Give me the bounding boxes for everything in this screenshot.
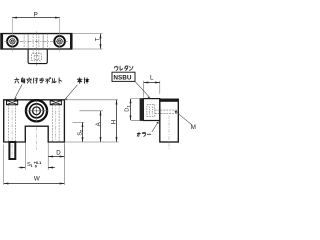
hidden socket in protrusion bbox=[34, 55, 39, 59]
collar leader bbox=[152, 122, 159, 133]
svg-text:2: 2 bbox=[80, 130, 84, 132]
bolt B2 top view head outer ring bbox=[54, 36, 65, 47]
A dimension line bbox=[100, 111, 102, 142]
S1 dimension arrows bbox=[19, 167, 26, 169]
notch center line bbox=[36, 127, 38, 150]
svg-text:D: D bbox=[56, 150, 61, 157]
urethane pad bbox=[140, 99, 143, 121]
top view plate body bbox=[1, 34, 72, 49]
D extension line bbox=[63, 143, 65, 159]
W dimension line bbox=[4, 183, 65, 185]
stopper circle inner bbox=[33, 107, 41, 115]
bolt B1 vertical center line bbox=[12, 18, 14, 52]
collar rect bbox=[143, 99, 159, 121]
D1 extension lines bbox=[131, 99, 140, 121]
hidden bolt shaft lines in plate bbox=[33, 34, 39, 49]
hidden collar lines in plate bbox=[24, 34, 47, 49]
svg-text:NSBU: NSBU bbox=[113, 75, 131, 82]
front view body outline bbox=[4, 100, 65, 142]
svg-text:T: T bbox=[94, 37, 101, 41]
side view center line bbox=[168, 116, 170, 150]
hidden shaft lines side view bbox=[155, 110, 177, 113]
top view right dark end strip bbox=[70, 34, 72, 49]
bolt F2 center line bbox=[55, 103, 57, 142]
bolt B2 socket circle bbox=[58, 40, 60, 42]
bolt F2 head bbox=[50, 100, 61, 104]
H top extension line bbox=[67, 99, 118, 101]
label collar カラー bbox=[137, 132, 140, 136]
dimension P bbox=[12, 17, 59, 19]
bolt F2 hidden shaft bbox=[52, 105, 59, 142]
hidden socket in collar bbox=[150, 107, 153, 115]
bolt F1 protruding tip bbox=[9, 142, 15, 159]
L extension lines bbox=[144, 81, 160, 98]
T extension lines bbox=[73, 34, 103, 49]
bolt B2 middle ring bbox=[57, 39, 62, 44]
svg-text:A: A bbox=[95, 121, 102, 126]
svg-text:1: 1 bbox=[126, 106, 130, 108]
label S2 (rotated) bbox=[78, 130, 84, 136]
svg-text:1: 1 bbox=[31, 164, 33, 168]
dimension T line bbox=[100, 34, 102, 49]
svg-text:0: 0 bbox=[35, 164, 37, 168]
H dimension line bbox=[116, 100, 118, 142]
S1 extension lines bbox=[25, 143, 48, 170]
stopper protrusion box below plate bbox=[28, 49, 47, 64]
S2 top extension line bbox=[73, 121, 85, 123]
L dimension line bbox=[144, 82, 160, 84]
svg-text:L: L bbox=[150, 75, 154, 82]
stopper circle middle bbox=[30, 104, 44, 118]
W extension lines bbox=[4, 145, 65, 185]
A top extension line (stopper axis) bbox=[80, 110, 103, 112]
S2 dimension line bbox=[82, 123, 84, 142]
stopper circle outer bbox=[26, 100, 47, 121]
bolt B1 top view head outer ring bbox=[7, 36, 18, 47]
bolt F1 hidden shaft bbox=[9, 105, 16, 142]
leader hex socket bolt label bbox=[15, 84, 23, 98]
bolt F1 head bbox=[7, 100, 18, 104]
svg-text:W: W bbox=[34, 176, 40, 183]
stopper center dot bbox=[36, 110, 38, 112]
label hex-socket-bolt 六角穴付きボルト bbox=[15, 78, 19, 83]
NSBU box bbox=[112, 72, 135, 81]
svg-text:P: P bbox=[34, 11, 38, 18]
label body 本体 bbox=[77, 78, 82, 84]
stopper crosshair bbox=[25, 100, 49, 123]
hidden bolt head in collar bbox=[147, 105, 155, 117]
svg-text:H: H bbox=[110, 120, 117, 124]
bolt B1 socket circle bbox=[11, 40, 13, 42]
hidden shaft stubs into protrusion bbox=[33, 49, 39, 54]
visible stopper edges in plate bbox=[28, 34, 43, 49]
bolt B2 vertical center line bbox=[59, 18, 61, 52]
bolt F1 center line bbox=[11, 103, 13, 160]
M leader bbox=[175, 111, 192, 125]
stopper center line top view bbox=[36, 32, 38, 66]
hidden collar square in protrusion bbox=[32, 54, 42, 61]
label urethane ウレタン bbox=[115, 66, 118, 70]
D1 dimension line bbox=[130, 99, 132, 120]
horizontal center line top view bbox=[5, 40, 68, 42]
top view left dark end strip bbox=[1, 34, 3, 49]
leader body label bbox=[65, 85, 77, 100]
bolt B1 middle ring bbox=[10, 39, 15, 44]
side view block bbox=[160, 99, 179, 142]
side view top dark band bbox=[160, 99, 179, 102]
svg-text:M: M bbox=[191, 124, 196, 131]
NSBU leader bbox=[135, 81, 150, 97]
bottom extension line right bbox=[64, 141, 118, 143]
label D1 (rotated) bbox=[124, 106, 130, 112]
D dimension line bbox=[48, 156, 64, 158]
